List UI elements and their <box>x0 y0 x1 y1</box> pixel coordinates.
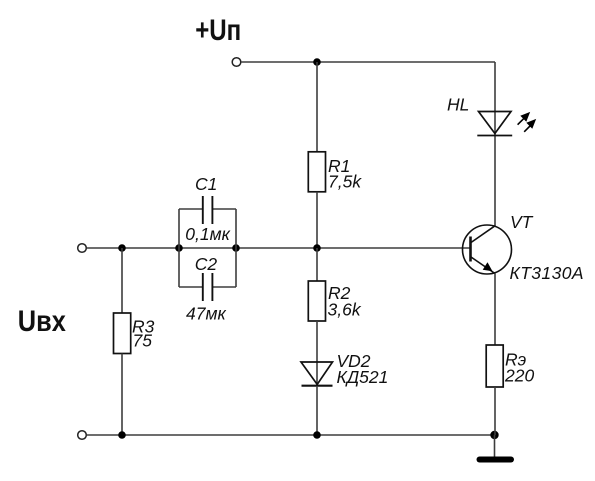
svg-text:C2: C2 <box>195 254 218 274</box>
node: bottom rail / R3 <box>118 431 126 439</box>
LED emission arrow 1 <box>518 113 530 125</box>
wire: VD2 bottom lead <box>316 386 318 435</box>
emitter arrow <box>483 262 493 271</box>
wire: R3 bottom lead <box>121 354 123 436</box>
terminal: Uвх top input <box>78 244 87 253</box>
ground <box>480 457 512 463</box>
wire: bottom rail <box>87 434 495 436</box>
wire: C1 right lead <box>213 208 236 210</box>
node: bottom rail / VD2 <box>313 431 321 439</box>
transistor VT <box>463 225 512 274</box>
wire: R3 top lead <box>121 248 123 313</box>
wire: ground lead <box>494 435 496 457</box>
node: middle rail / cap left <box>175 244 183 252</box>
svg-text:КД521: КД521 <box>337 367 389 387</box>
svg-text:HL: HL <box>447 95 469 115</box>
wire: capacitor bracket left vertical <box>178 209 180 287</box>
wire: emitter down to Rэ <box>494 274 496 346</box>
node: middle rail / R3 <box>118 244 126 252</box>
capacitor C2 <box>202 273 204 301</box>
svg-text:47мк: 47мк <box>186 303 226 323</box>
resistor R1 <box>308 152 325 192</box>
LED HL <box>479 112 512 134</box>
wire: top rail from terminal to collector branch corner <box>241 61 495 63</box>
wire: C2 left lead <box>179 286 203 288</box>
wire: collector branch down from top rail <box>494 62 496 226</box>
LED emission arrow 2 <box>524 120 535 132</box>
resistor Rэ <box>486 345 503 387</box>
node: top rail / R1 junction <box>313 58 321 66</box>
svg-text:Uвх: Uвх <box>18 305 66 338</box>
wire: Rэ to bottom rail <box>494 387 496 435</box>
svg-text:0,1мк: 0,1мк <box>185 224 230 244</box>
wire: main middle rail <box>87 247 471 249</box>
svg-text:220: 220 <box>504 366 534 386</box>
svg-text:75: 75 <box>133 330 153 350</box>
svg-text:3,6k: 3,6k <box>328 300 362 320</box>
diode VD2 <box>301 362 333 384</box>
collector line <box>471 226 495 243</box>
wire: C2 right lead <box>213 286 236 288</box>
wire: C1 left lead <box>179 208 203 210</box>
terminal: +Uп input <box>232 58 241 67</box>
svg-text:C1: C1 <box>195 174 217 194</box>
wire: R1 top lead <box>316 62 318 152</box>
node: middle rail / cap right <box>232 244 240 252</box>
emitter line <box>471 257 495 274</box>
terminal: Uвх bottom input <box>78 431 87 440</box>
wire: R1 bottom lead <box>316 192 318 248</box>
svg-text:VT: VT <box>510 212 534 232</box>
wire: R2 bottom lead <box>316 321 318 386</box>
svg-text:КТ3130А: КТ3130А <box>510 263 584 283</box>
capacitor C1 <box>202 196 204 224</box>
resistor R3 <box>114 313 131 354</box>
wire: capacitor bracket right vertical <box>235 209 237 287</box>
node: middle rail / R1 R2 <box>313 244 321 252</box>
node: bottom rail / emitter / ground <box>490 431 498 439</box>
resistor R2 <box>308 281 325 321</box>
svg-text:7,5k: 7,5k <box>328 172 362 192</box>
svg-text:+Uп: +Uп <box>195 14 241 47</box>
base bar <box>469 237 472 262</box>
wire: R2 top lead <box>316 248 318 281</box>
